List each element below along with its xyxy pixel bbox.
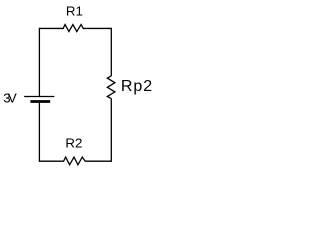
svg-text:R1: R1 — [66, 4, 83, 19]
wire: left side, top segment (corner down to battery + plate) — [38, 28, 40, 97]
svg-text:R2: R2 — [65, 135, 82, 150]
battery V1 negative plate (short thick) — [30, 100, 50, 103]
wire: right side, bottom segment — [110, 99, 112, 162]
wire: left side, bottom segment (battery - plate down to corner) — [38, 102, 40, 162]
wire: right side, top segment — [110, 28, 112, 76]
resistor Rp2 (vertical zigzag) — [107, 76, 115, 99]
wire: top side with resistor R1 zigzag inline — [39, 25, 111, 32]
svg-text:3V: 3V — [3, 91, 17, 106]
wire: bottom side with resistor R2 zigzag inline — [39, 157, 111, 165]
svg-text:Rp2: Rp2 — [121, 78, 152, 95]
battery V1 positive plate (long thin) — [24, 96, 54, 98]
